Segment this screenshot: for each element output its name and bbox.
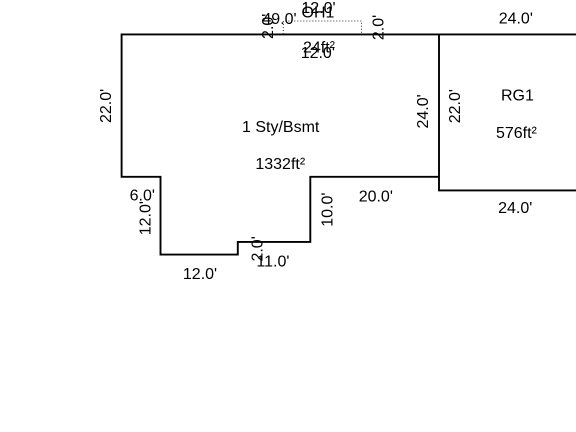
svg-text:1 Sty/Bsmt: 1 Sty/Bsmt xyxy=(242,119,320,136)
svg-text:20.0': 20.0' xyxy=(359,188,393,205)
svg-text:22.0': 22.0' xyxy=(447,89,464,123)
svg-text:OH1: OH1 xyxy=(302,4,335,21)
svg-text:24.0': 24.0' xyxy=(415,94,432,128)
svg-text:2.0': 2.0' xyxy=(260,14,277,39)
svg-text:12.0': 12.0' xyxy=(138,201,155,235)
wire: garage bottom edge xyxy=(438,189,576,191)
svg-text:12.0': 12.0' xyxy=(183,266,217,283)
svg-text:12.0': 12.0' xyxy=(301,45,335,62)
wire: divider wall between house and garage xyxy=(438,34,440,192)
wire: main house outline 1 Sty/Bsmt xyxy=(122,34,439,255)
svg-text:1332ft²: 1332ft² xyxy=(255,156,305,173)
node OH1 dotted overhang outline xyxy=(283,21,361,34)
svg-text:10.0': 10.0' xyxy=(319,193,336,227)
svg-text:24.0': 24.0' xyxy=(499,11,533,28)
svg-text:24.0': 24.0' xyxy=(498,200,532,217)
svg-text:11.0': 11.0' xyxy=(256,254,289,271)
svg-text:RG1: RG1 xyxy=(501,88,534,105)
wire: top edge of house and garage (y=34.3) xyxy=(122,33,576,35)
svg-text:22.0': 22.0' xyxy=(98,89,115,123)
svg-text:2.0': 2.0' xyxy=(371,15,388,40)
svg-text:576ft²: 576ft² xyxy=(496,125,538,142)
